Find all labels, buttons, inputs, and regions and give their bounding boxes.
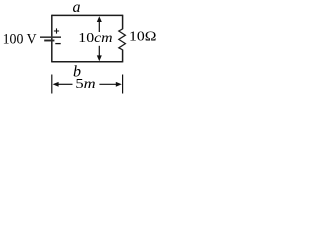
width dimension right arrow — [99, 83, 116, 85]
battery minus label — [55, 43, 60, 45]
battery plus label — [54, 28, 59, 33]
wire top — [52, 14, 123, 16]
wire right top lead — [122, 15, 124, 30]
width dimension right tick — [122, 75, 124, 94]
svg-text:a: a — [73, 0, 81, 16]
wire bottom — [52, 61, 123, 63]
svg-text:10cm: 10cm — [78, 31, 112, 46]
wire right bottom lead — [122, 50, 124, 63]
resistor R1 zigzag — [119, 29, 126, 50]
width dimension left tick — [51, 75, 53, 94]
svg-text:10Ω: 10Ω — [129, 30, 156, 45]
width dimension left arrow — [58, 83, 73, 85]
battery V1 short negative plate — [44, 40, 54, 42]
battery V1 long positive plate — [40, 36, 61, 38]
wire left — [51, 15, 53, 63]
height dimension up arrow — [98, 21, 100, 33]
height dimension down arrow — [98, 46, 100, 57]
svg-text:100 V: 100 V — [3, 31, 37, 47]
svg-text:5m: 5m — [75, 77, 95, 92]
